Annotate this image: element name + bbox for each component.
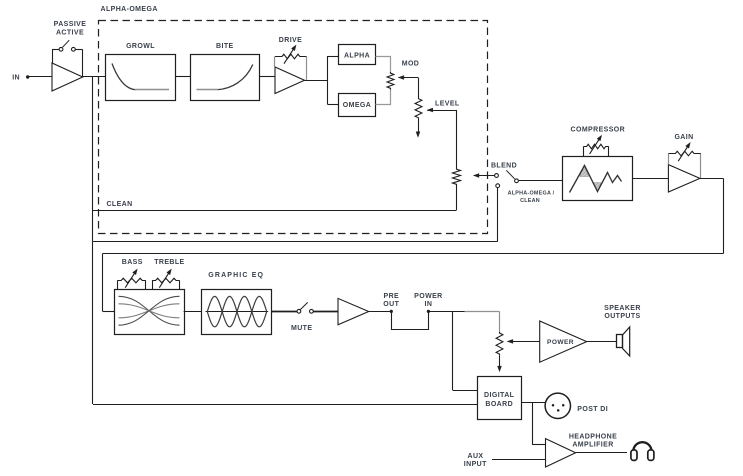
op-amp input buffer: [52, 63, 83, 91]
svg-text:GRAPHIC EQ: GRAPHIC EQ: [208, 272, 264, 279]
label BLEND: [491, 163, 517, 170]
amp GAIN with pot: [668, 143, 701, 193]
potentiometer BLEND: [453, 168, 495, 186]
connector POST DI (XLR): [545, 393, 570, 418]
svg-text:ALPHA: ALPHA: [344, 53, 370, 60]
label LEVEL: [435, 100, 460, 107]
label DRIVE: [279, 37, 302, 44]
tone curves inside BASS/TREBLE box: [119, 296, 180, 325]
wire EQ to MUTE switch: [272, 311, 297, 313]
wire switch common to COMPRESSOR: [518, 180, 562, 182]
svg-text:BITE: BITE: [216, 43, 234, 50]
potentiometer POWER volume: [496, 311, 540, 371]
label HEADPHONE AMPLIFIER: [569, 433, 617, 448]
svg-text:OUTPUTS: OUTPUTS: [604, 313, 640, 320]
wire GAIN output down to row 2: [700, 178, 724, 253]
wire COMPRESSOR to GAIN: [632, 178, 668, 180]
label ALPHA-OMEGA: [101, 6, 158, 13]
wire long return line row 2: [103, 254, 724, 312]
svg-text:DRIVE: DRIVE: [279, 37, 302, 44]
label MUTE: [291, 325, 312, 332]
block BASS TREBLE tone stack: [115, 269, 185, 335]
svg-text:LEVEL: LEVEL: [435, 100, 460, 107]
label COMPRESSOR: [571, 127, 626, 134]
wire BITE to DRIVE: [260, 76, 275, 78]
wire input to buffer amp: [29, 76, 52, 78]
block OMEGA: [339, 94, 376, 117]
wire POWER amp to speaker: [587, 341, 617, 343]
svg-text:SPEAKER: SPEAKER: [604, 305, 641, 312]
potentiometer MOD: [387, 72, 418, 98]
label SPEAKER OUTPUTS: [604, 305, 641, 320]
label ALPHA-OMEGA / CLEAN: [508, 191, 555, 205]
svg-text:GROWL: GROWL: [126, 43, 155, 50]
potentiometer LEVEL: [415, 98, 456, 169]
wire buffer to GROWL: [83, 76, 106, 78]
svg-text:ACTIVE: ACTIVE: [56, 29, 84, 36]
wire amp to PRE OUT: [369, 311, 392, 313]
svg-text:BOARD: BOARD: [485, 401, 513, 408]
wire ALPHA to MOD pot (gray): [376, 57, 391, 73]
node junction at x93 (clean tap): [92, 77, 94, 242]
wire DRIVE to ALPHA/OMEGA branch: [305, 56, 339, 105]
node POWER IN: [414, 293, 442, 313]
label CLEAN: [106, 201, 132, 208]
block COMPRESSOR: [563, 135, 633, 200]
switch ALPHA-OMEGA/CLEAN select: [495, 170, 519, 241]
amp POWER: [540, 321, 587, 362]
wire GROWL to BITE: [176, 76, 191, 78]
block BITE (high shelf filter): [191, 43, 260, 101]
wire headphone amp to headphones: [576, 452, 627, 454]
wire OMEGA to MOD pot (gray): [376, 90, 391, 105]
block DIGITAL BOARD: [478, 377, 522, 420]
switch MUTE: [297, 302, 338, 313]
svg-text:POWER: POWER: [547, 339, 574, 346]
label BASS: [122, 259, 143, 266]
wire junction to headphone amp: [532, 403, 545, 445]
svg-text:INPUT: INPUT: [464, 461, 487, 468]
svg-text:AUX: AUX: [468, 453, 484, 460]
amp HEADPHONE: [546, 439, 576, 467]
svg-text:CLEAN: CLEAN: [520, 198, 540, 204]
svg-text:HEADPHONE: HEADPHONE: [569, 433, 617, 440]
svg-text:BLEND: BLEND: [491, 163, 517, 170]
wire CLEAN: [93, 210, 457, 212]
label GRAPHIC EQ: [208, 272, 264, 279]
amp DRIVE with gain pot: [275, 45, 307, 94]
node AUX INPUT: [464, 453, 546, 468]
label GAIN: [674, 134, 693, 141]
svg-text:COMPRESSOR: COMPRESSOR: [571, 127, 626, 134]
label TREBLE: [154, 259, 184, 266]
svg-text:GAIN: GAIN: [674, 134, 693, 141]
wire left bus down to DIGITAL BOARD: [93, 242, 478, 405]
waveform inside compressor: [570, 165, 622, 192]
svg-text:PASSIVE: PASSIVE: [54, 21, 87, 28]
svg-text:POWER: POWER: [414, 293, 442, 300]
amp master (post EQ): [338, 298, 369, 324]
svg-text:DIGITAL: DIGITAL: [484, 392, 515, 399]
speaker icon: [617, 327, 630, 356]
svg-text:ALPHA-OMEGA /: ALPHA-OMEGA /: [508, 191, 555, 197]
svg-text:MUTE: MUTE: [291, 325, 312, 332]
svg-text:AMPLIFIER: AMPLIFIER: [572, 441, 613, 448]
label PASSIVE ACTIVE: [54, 21, 87, 36]
block GROWL (low shelf filter): [106, 43, 176, 101]
wire BLEND pot bottom to CLEAN line: [456, 186, 458, 211]
block ALPHA: [339, 45, 376, 65]
wire POWER IN to master volume pot: [428, 311, 499, 313]
headphones icon: [631, 442, 654, 460]
switch PASSIVE/ACTIVE bypass loop: [52, 40, 83, 76]
svg-text:PRE: PRE: [384, 293, 400, 300]
svg-text:IN: IN: [12, 74, 20, 81]
svg-text:POST DI: POST DI: [577, 406, 608, 413]
svg-text:TREBLE: TREBLE: [154, 259, 184, 266]
svg-text:MOD: MOD: [402, 60, 420, 67]
label POST DI: [577, 406, 608, 413]
block GRAPHIC EQ: [202, 290, 272, 335]
node PRE OUT: [383, 293, 399, 313]
svg-text:IN: IN: [424, 301, 432, 308]
svg-text:ALPHA-OMEGA: ALPHA-OMEGA: [101, 6, 158, 13]
wire DIGITAL BOARD output: [521, 402, 545, 404]
label MOD: [402, 60, 420, 67]
wire tone to GRAPHIC EQ: [184, 311, 202, 313]
jumper PRE OUT to POWER IN: [392, 312, 429, 330]
node IN (input jack label and dot): [12, 74, 29, 81]
svg-text:OMEGA: OMEGA: [343, 102, 371, 109]
svg-text:CLEAN: CLEAN: [106, 201, 132, 208]
wire branch down to DIGITAL BOARD input: [453, 311, 478, 390]
dashed box ALPHA-OMEGA section: [99, 21, 488, 234]
svg-text:BASS: BASS: [122, 259, 143, 266]
wire switch lower throw to left bus: [93, 241, 498, 243]
svg-text:OUT: OUT: [383, 301, 399, 308]
